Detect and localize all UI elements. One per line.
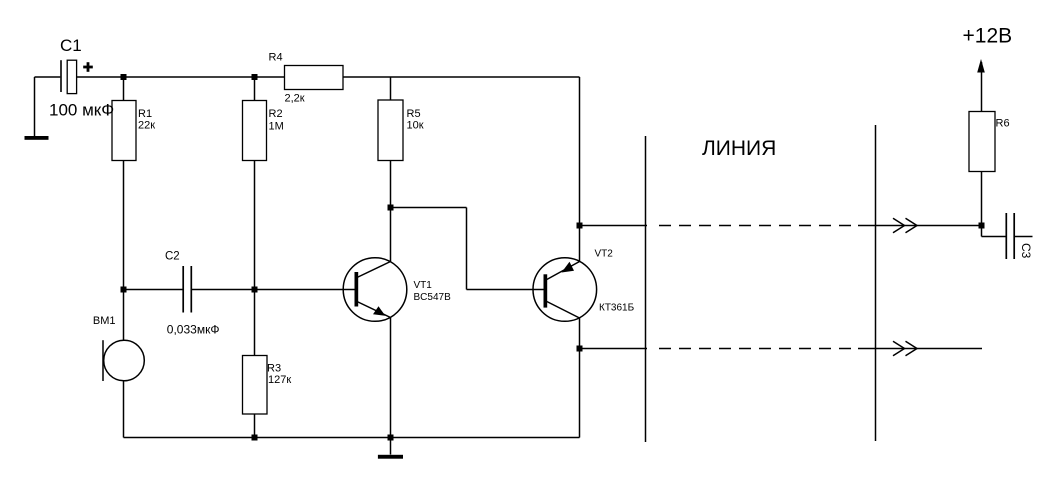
svg-text:10к: 10к (407, 120, 424, 132)
svg-text:VT2: VT2 (595, 249, 614, 260)
svg-text:+12В: +12В (963, 25, 1013, 48)
svg-text:2,2к: 2,2к (285, 93, 305, 105)
svg-text:BM1: BM1 (93, 315, 116, 327)
svg-text:22к: 22к (138, 120, 155, 132)
svg-text:R4: R4 (269, 52, 283, 64)
svg-text:127к: 127к (268, 374, 291, 386)
svg-text:R6: R6 (996, 118, 1010, 130)
svg-text:BC547B: BC547B (414, 292, 452, 303)
svg-text:100 мкФ: 100 мкФ (49, 101, 114, 120)
svg-text:R2: R2 (269, 108, 283, 120)
svg-text:C2: C2 (165, 251, 180, 263)
svg-text:КТ361Б: КТ361Б (599, 303, 635, 314)
svg-text:R5: R5 (407, 108, 421, 120)
svg-text:VT1: VT1 (414, 280, 433, 291)
svg-text:R3: R3 (267, 363, 281, 375)
svg-text:С3: С3 (1019, 243, 1033, 259)
svg-text:1М: 1М (269, 121, 284, 133)
svg-text:R1: R1 (138, 108, 152, 120)
svg-text:C1: C1 (60, 36, 82, 55)
svg-text:ЛИНИЯ: ЛИНИЯ (702, 137, 776, 160)
svg-text:0,033мкФ: 0,033мкФ (167, 323, 220, 337)
